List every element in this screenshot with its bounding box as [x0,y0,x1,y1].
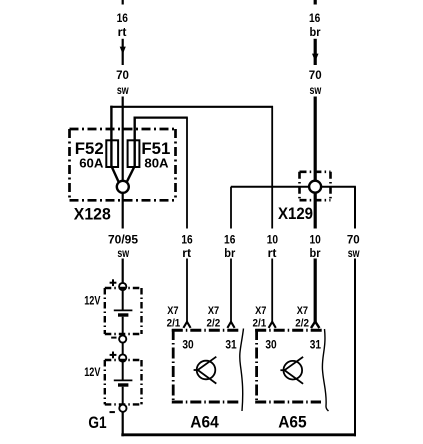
svg-text:sw: sw [348,246,360,260]
minus sign cell 2 [110,411,115,413]
svg-text:X7: X7 [297,305,308,317]
box X129 (dash-dot) [300,172,331,200]
pin chevron A64 2/1 [183,322,190,328]
svg-text:X128: X128 [74,206,111,224]
wire: ground bus horizontal y=186.8 [231,186,356,188]
battery G1: + terminal circle [119,283,126,290]
svg-text:A64: A64 [190,413,219,432]
svg-text:2/2: 2/2 [295,317,309,329]
svg-text:G1: G1 [88,413,106,432]
wire: F52 vertical drop x=112 [110,106,112,167]
battery mid terminal circle [119,335,126,342]
connector labels X7 2/1 (A64 pin 30) [167,305,309,329]
svg-text:sw: sw [117,246,129,260]
box A64 (dash-dot, wavy right edge) [172,330,240,402]
svg-text:70/95: 70/95 [108,232,138,246]
svg-text:12V: 12V [84,367,100,379]
horn symbol A64 [194,357,217,384]
svg-text:2/1: 2/1 [253,317,267,329]
svg-text:2/2: 2/2 [207,317,221,329]
wavy right edge A64 [240,329,244,412]
battery cell 2 plates [122,362,124,380]
arrow on top-right wire [312,54,319,62]
plus sign cell 1 [110,279,117,286]
svg-text:10: 10 [309,232,320,246]
label F52 60A [75,139,171,158]
svg-text:60A: 60A [79,156,104,171]
wire: x=231 (16 br to A64 pin 2/2) [230,187,232,229]
svg-text:10: 10 [267,232,278,246]
plus sign cell 2 [110,352,117,359]
svg-text:16: 16 [117,11,128,25]
battery cell 1 box (dash-dot) [105,288,142,334]
svg-text:rt: rt [268,246,277,260]
wire: F51 vertical drop x=134.5 [133,117,135,168]
svg-text:X129: X129 [278,205,313,223]
svg-text:2/1: 2/1 [167,317,181,329]
horn symbol A65 [280,357,303,384]
svg-text:70: 70 [116,68,129,82]
svg-text:br: br [224,246,235,260]
fuse F52 [106,140,118,167]
svg-text:16: 16 [181,232,192,246]
svg-text:rt: rt [182,246,191,260]
fuse F51 [128,140,140,167]
pin chevron A65 2/1 [269,322,276,328]
battery - terminal circle [119,405,126,412]
pin chevron A64 2/2 [227,322,234,328]
box X128 (dash-dot) [70,129,176,200]
minus sign cell 1 [111,337,116,339]
svg-text:br: br [310,246,321,260]
svg-text:12V: 12V [84,296,100,308]
wire: bottom return bus y=435.2 [121,433,356,436]
svg-text:30: 30 [265,340,276,352]
battery cell 2 + terminal circle [119,354,126,361]
wire: x=187 (16 rt to A64 pin 2/1) [186,118,188,229]
wire: horizontal F52 top to x=272, y=107 [110,106,273,108]
svg-text:X7: X7 [167,305,178,317]
wire labels row (y~237/251) [108,232,360,260]
svg-text:rt: rt [118,25,127,39]
arrow on top-left wire [120,47,126,55]
wire: fuse bottom diagonals to node [111,166,119,183]
node X128 (junction circle) [117,181,129,193]
pin chevron A65 2/2 (thick) [311,322,319,329]
node X129 (junction circle) [309,181,321,193]
svg-text:X7: X7 [255,305,266,317]
box A65 (dash-dot, wavy right edge) [255,330,322,402]
svg-text:16: 16 [309,11,320,25]
battery cell 1 plates [122,290,124,310]
label 16 rt (top-left) [116,11,129,97]
wire between cells [122,343,124,355]
label 16 br (top-right) [309,11,322,97]
svg-text:80A: 80A [144,156,169,171]
wire: battery minus down to bus [122,412,124,437]
wire: x=355 (70 sw right side down) [354,187,356,229]
svg-text:70: 70 [309,68,322,82]
battery cell 2 box (dash-dot) [105,360,142,404]
terminal labels 30 31 (A65) [265,340,321,352]
svg-text:70: 70 [347,232,360,246]
svg-text:sw: sw [117,83,129,97]
svg-text:A65: A65 [278,413,306,432]
svg-text:X7: X7 [208,305,219,317]
svg-text:sw: sw [310,83,322,97]
svg-text:31: 31 [225,340,237,352]
svg-text:16: 16 [224,232,235,246]
wire: horizontal F51 top to x=187, y=117.3 [134,116,188,118]
wavy right edge A65 [322,329,328,411]
wire: x=272 (10 rt to A65 pin 2/1) [271,106,273,229]
wire: top-right feed (thick), x=315 [314,0,317,323]
svg-text:br: br [310,25,321,39]
wire: top-left feed, x=122 [122,0,124,283]
svg-text:30: 30 [182,340,193,352]
svg-text:31: 31 [310,340,322,352]
terminal labels 30 31 (A64) [182,340,237,352]
